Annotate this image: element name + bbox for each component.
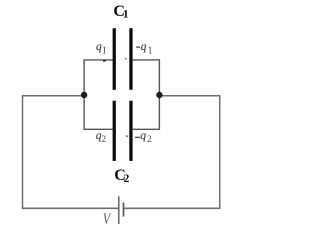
wire: inner top-left segment to C1 left plate: [84, 59, 113, 61]
capacitor C1 right plate: [129, 28, 132, 90]
svg-text:2: 2: [147, 135, 152, 145]
node: right junction dot: [156, 92, 162, 98]
wire: outer top-left horizontal rail: [22, 95, 84, 97]
battery V long plate: [118, 196, 120, 224]
label -q1 minus: [136, 46, 140, 47]
svg-text:q: q: [140, 130, 146, 142]
wire: inner top-right segment from C1 right plate: [132, 59, 160, 61]
wire: outer bottom-left rail to battery: [22, 207, 118, 209]
svg-text:V: V: [103, 211, 112, 228]
wire: inner left vertical segment: [83, 59, 85, 130]
wire: inner right vertical segment: [158, 59, 160, 130]
wire: inner bottom-right segment from C2 right plate: [132, 128, 160, 130]
capacitor C1 left plate: [113, 28, 116, 90]
svg-text:1: 1: [123, 9, 129, 21]
battery V short plate: [123, 202, 125, 216]
stray mark: dot between C2 plates: [126, 135, 128, 137]
svg-text:2: 2: [124, 173, 130, 185]
wire: outer top-right horizontal rail: [159, 95, 220, 97]
wire: outer left vertical rail: [22, 95, 24, 209]
svg-text:2: 2: [101, 135, 106, 145]
wire: inner bottom-left segment to C2 left plate: [84, 128, 113, 130]
svg-text:q: q: [141, 41, 147, 53]
stray mark: tick below wire left of C1 plate: [103, 60, 106, 62]
label -q2 minus: [135, 137, 140, 138]
capacitor C2 left plate: [113, 101, 116, 161]
node: left junction dot: [81, 92, 87, 98]
svg-text:1: 1: [102, 45, 107, 56]
wire: outer bottom-right rail from battery: [124, 207, 221, 209]
wire: outer right vertical rail: [219, 95, 221, 209]
svg-text:1: 1: [148, 45, 153, 56]
stray mark: dot between C1 plates: [125, 58, 127, 60]
capacitor C2 right plate: [129, 101, 132, 161]
